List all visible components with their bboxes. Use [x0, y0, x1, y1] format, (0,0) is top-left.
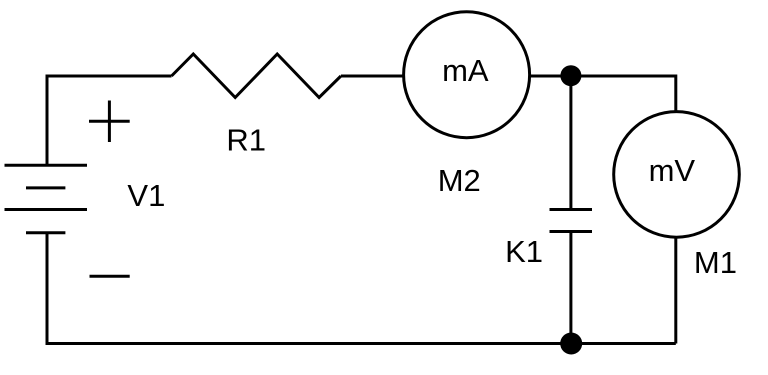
capacitor K1: [550, 210, 593, 232]
svg-text:R1: R1: [226, 122, 266, 157]
resistor R1: [172, 54, 341, 98]
wire top-left corner to resistor: [47, 76, 172, 165]
wire junction to capacitor: [569, 76, 572, 210]
svg-text:V1: V1: [127, 178, 165, 213]
ammeter M2: [404, 12, 530, 138]
svg-text:K1: K1: [505, 234, 543, 269]
wire voltmeter to bottom wire: [674, 236, 677, 344]
svg-text:M2: M2: [438, 163, 481, 198]
svg-text:mA: mA: [442, 53, 489, 88]
battery plus sign: [89, 101, 130, 143]
node junction top: [560, 65, 581, 86]
battery minus sign: [90, 275, 130, 278]
svg-text:mV: mV: [649, 153, 696, 188]
wire resistor to ammeter: [341, 75, 405, 78]
battery V1: [5, 165, 88, 233]
wire capacitor to bottom junction: [569, 232, 572, 344]
wire ammeter to top-right corner: [530, 76, 676, 113]
svg-text:M1: M1: [694, 245, 737, 280]
bottom wire: [47, 233, 676, 344]
node junction bottom: [560, 333, 582, 355]
voltmeter M1: [614, 112, 740, 238]
